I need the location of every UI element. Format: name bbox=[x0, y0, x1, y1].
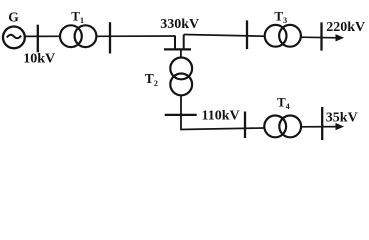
svg-text:10kV: 10kV bbox=[23, 52, 55, 67]
svg-text:220kV: 220kV bbox=[326, 20, 365, 35]
110kV side bus bar bbox=[165, 114, 197, 116]
junction bus bar bbox=[164, 48, 191, 50]
wire T3 to 220kV arrow bbox=[301, 36, 338, 39]
bus bar 330kV right bbox=[246, 20, 248, 49]
svg-text:T4: T4 bbox=[277, 94, 290, 111]
wire junction to T3 bbox=[184, 35, 265, 37]
svg-text:35kV: 35kV bbox=[326, 110, 358, 125]
stub left of junction bbox=[174, 36, 176, 49]
generator G bbox=[3, 27, 25, 49]
transformer T2 bbox=[170, 58, 192, 96]
bus bar 110kV bbox=[244, 112, 246, 139]
wire junction bus to T2 bbox=[180, 49, 182, 57]
bus bar 35kV bbox=[321, 107, 323, 140]
wire T2 to 110kV side bus bbox=[180, 96, 182, 115]
wire generator to T1 bbox=[25, 35, 60, 37]
bus bar 330kV left bbox=[109, 22, 111, 53]
svg-text:330kV: 330kV bbox=[160, 17, 199, 32]
svg-text:G: G bbox=[8, 9, 19, 24]
bus bar 10kV bbox=[37, 25, 39, 53]
svg-text:T3: T3 bbox=[274, 8, 287, 25]
arrowhead 220kV bbox=[336, 34, 345, 41]
110kV feeder wire bbox=[180, 128, 264, 130]
wire T1 to junction bbox=[97, 35, 176, 37]
bus bar 220kV bbox=[320, 22, 322, 50]
generator sine symbol bbox=[7, 35, 21, 38]
transformer T3 bbox=[265, 25, 301, 47]
svg-text:110kV: 110kV bbox=[202, 109, 240, 124]
transformer T4 bbox=[264, 116, 301, 138]
wire down from side bus bbox=[180, 114, 182, 130]
stub right of junction bbox=[183, 35, 185, 50]
wire T4 to 35kV arrow bbox=[302, 126, 339, 128]
arrowhead 35kV bbox=[336, 123, 345, 130]
svg-text:T2: T2 bbox=[145, 71, 158, 88]
svg-text:T1: T1 bbox=[71, 8, 84, 25]
transformer T1 bbox=[60, 25, 96, 47]
